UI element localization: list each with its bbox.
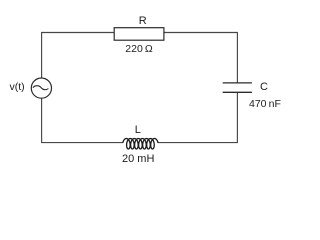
- label C: [260, 81, 268, 93]
- label 20 mH: [122, 153, 154, 165]
- label v(t): [10, 81, 25, 93]
- capacitor C bottom plate: [223, 91, 252, 93]
- wire bottom-left segment: [42, 98, 124, 142]
- label L: [135, 124, 141, 136]
- wire bottom-right segment: [157, 92, 237, 142]
- capacitor C top plate: [223, 82, 252, 84]
- resistor R body: [114, 28, 164, 41]
- wire top-right segment: [164, 33, 238, 83]
- label 470 nF: [249, 98, 281, 110]
- source sine wave: [33, 86, 49, 90]
- source v(t) circle: [31, 78, 51, 98]
- label 220 ohm: [125, 43, 152, 55]
- inductor L coil: [123, 139, 158, 150]
- label R: [139, 15, 147, 27]
- wire top-left segment: [42, 33, 115, 79]
